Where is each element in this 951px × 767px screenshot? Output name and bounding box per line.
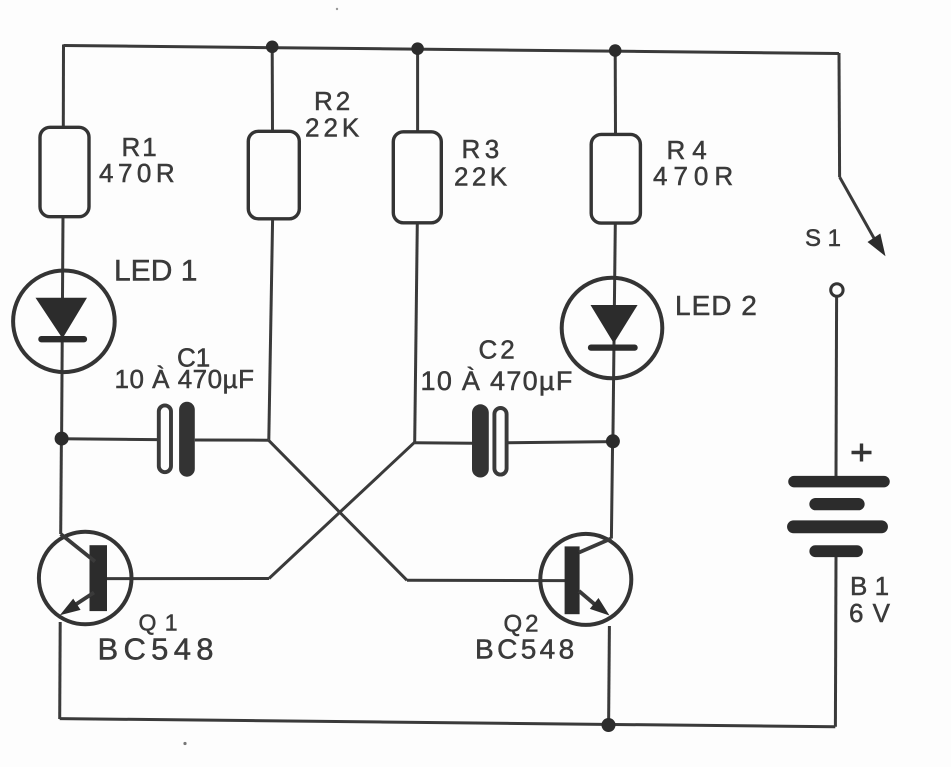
wire node A to C1	[62, 437, 157, 441]
wire top rail to R2	[271, 47, 274, 132]
capacitor C2	[472, 404, 507, 477]
wire battery to bottom rail	[834, 557, 838, 727]
wire to Q2 base (horizontal)	[407, 579, 566, 582]
wire R3 to knee	[415, 223, 418, 442]
wire bottom rail	[60, 719, 836, 727]
wire Q1 emitter to bottom rail	[58, 622, 62, 719]
wire top rail to switch	[838, 53, 842, 177]
svg-text:6 V: 6 V	[849, 598, 891, 628]
wire R3 knee to C2	[415, 441, 473, 445]
resistor R4	[591, 134, 640, 223]
transistor Q1	[39, 532, 132, 625]
wire R2 to node	[269, 219, 273, 440]
wire to Q1 base (horizontal)	[107, 577, 270, 580]
svg-text:LED 1: LED 1	[114, 255, 197, 288]
transistor Q2	[540, 534, 631, 625]
svg-text:BC548: BC548	[475, 634, 578, 665]
resistor R3	[393, 132, 441, 223]
wire switch terminal to battery	[835, 297, 839, 476]
wire C2 to node B	[508, 442, 613, 443]
junction node B	[606, 434, 620, 448]
wire R1 through LED1 to node A	[62, 216, 63, 439]
svg-text:10 À 470µF: 10 À 470µF	[421, 366, 574, 396]
junction bottom rail	[602, 718, 616, 732]
resistor R1	[40, 127, 89, 216]
svg-text:C2: C2	[479, 335, 518, 365]
LED2	[562, 278, 663, 379]
svg-text:LED 2: LED 2	[675, 290, 758, 321]
wire cross-couple R2 node to Q2 base (diagonal)	[269, 440, 408, 580]
wire R4 through LED2 to node B	[613, 223, 615, 441]
resistor R2	[248, 131, 299, 219]
paper speck	[336, 8, 338, 10]
wire C1 to R2 node	[195, 439, 269, 442]
paper speck	[183, 742, 186, 745]
wire top rail to R4	[614, 51, 617, 135]
switch S1 arm	[840, 177, 886, 256]
wire top rail	[64, 46, 840, 54]
svg-text:10 À 470µF: 10 À 470µF	[115, 364, 255, 394]
junction top R3	[411, 42, 424, 55]
svg-text:BC548: BC548	[98, 632, 219, 667]
svg-text:22K: 22K	[454, 162, 510, 192]
LED1	[13, 271, 115, 373]
switch S1 terminal	[831, 284, 843, 296]
svg-text:B 1: B 1	[850, 571, 889, 601]
wire cross-couple R3 knee to Q1 base (diagonal)	[269, 442, 415, 578]
junction top R2	[266, 41, 279, 54]
wire Q2 emitter to bottom rail	[607, 626, 611, 725]
wire top rail to R3	[416, 49, 419, 132]
svg-text:S 1: S 1	[805, 225, 841, 252]
capacitor C1	[159, 402, 195, 477]
wire node B to Q2 collector	[611, 441, 612, 538]
svg-text:470R: 470R	[653, 161, 739, 191]
battery plus sign	[852, 444, 872, 462]
svg-text:470R: 470R	[99, 158, 179, 188]
svg-text:R3: R3	[462, 134, 504, 164]
wire left rail top (to R1)	[62, 45, 65, 129]
wire node A to Q1 collector	[59, 439, 63, 535]
junction node A	[55, 432, 69, 446]
battery B1	[794, 482, 885, 552]
svg-text:22K: 22K	[305, 112, 363, 142]
junction top R4	[609, 44, 622, 57]
